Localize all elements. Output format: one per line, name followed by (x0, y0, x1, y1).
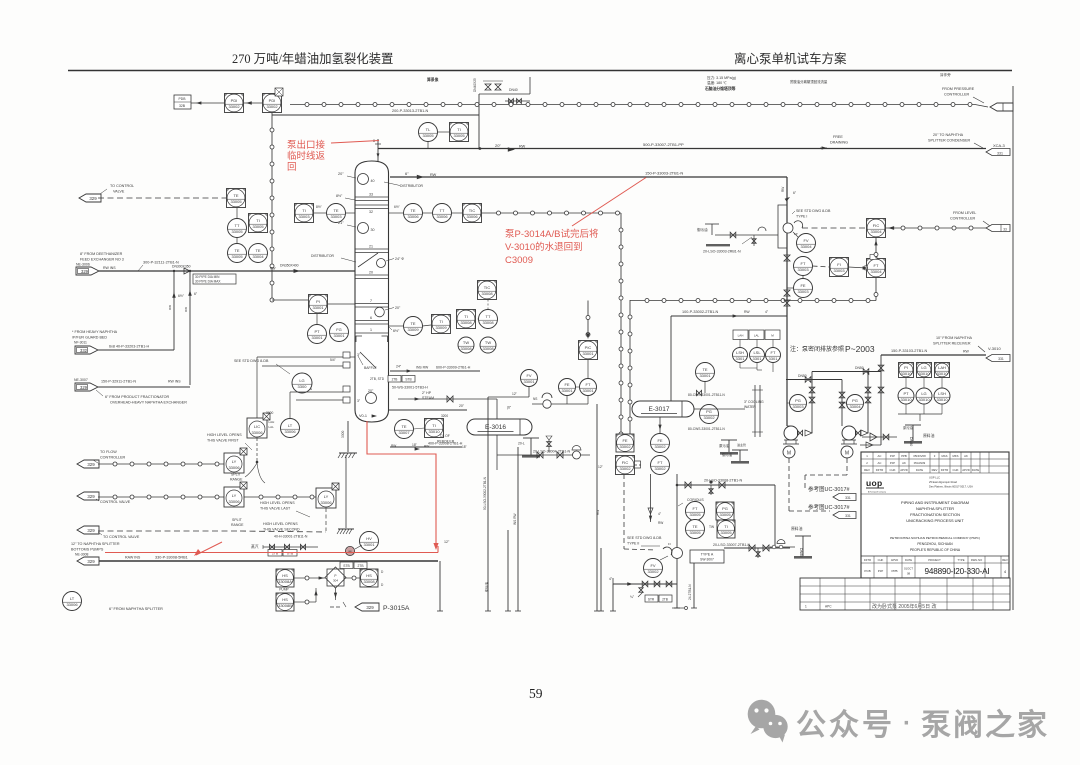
svg-text:LIC: LIC (254, 424, 260, 429)
svg-text:RW: RW (596, 510, 600, 515)
instrument FIC-33004 sq (867, 219, 886, 238)
svg-text:DFTR: DFTR (864, 558, 871, 562)
svg-text:M: M (349, 550, 352, 554)
instrument FT-33003 (794, 257, 813, 276)
instrument LT-33006 (281, 419, 300, 438)
svg-text:8" FROM DEETHANIZER: 8" FROM DEETHANIZER (80, 252, 123, 256)
instrument TE-33003 (327, 204, 346, 223)
svg-text:M: M (845, 451, 849, 457)
junction arrow feed (294, 269, 300, 273)
svg-text:THIS VALVE LAST: THIS VALVE LAST (260, 507, 291, 511)
svg-text:NE-3007: NE-3007 (74, 378, 88, 382)
svg-text:MKS: MKS (952, 454, 958, 458)
svg-text:TT: TT (486, 314, 491, 319)
svg-text:FIC: FIC (873, 223, 880, 228)
svg-text:TW: TW (485, 340, 491, 345)
svg-text:NE-3006: NE-3006 (76, 263, 90, 267)
svg-text:TE: TE (234, 248, 239, 253)
svg-text:* FROM HEAVY NAPHTHA: * FROM HEAVY NAPHTHA (72, 330, 118, 334)
svg-text:御污油: 御污油 (484, 581, 489, 592)
flag control valve2 (77, 492, 99, 500)
pipe drop 787 (786, 177, 788, 426)
svg-text:12": 12" (444, 540, 450, 544)
svg-text:5/4": 5/4" (330, 358, 337, 362)
signal line from pressure controller (290, 104, 975, 106)
svg-text:80-CWS-33001-2TB11-N: 80-CWS-33001-2TB11-N (688, 427, 725, 431)
signal dotted c (244, 496, 316, 498)
svg-text:DISTRIBUTOR: DISTRIBUTOR (311, 254, 334, 258)
svg-text:HS: HS (282, 597, 288, 602)
instrument LY-33006b (224, 487, 244, 507)
svg-text:DWG NO: DWG NO (971, 558, 982, 562)
svg-text:33005: 33005 (231, 229, 243, 234)
column tray 33 (355, 196, 389, 198)
svg-text:PJP: PJP (890, 454, 895, 458)
svg-text:泵阀之家: 泵阀之家 (921, 708, 1049, 742)
svg-text:FE: FE (800, 283, 805, 288)
svg-text:33008A: 33008A (278, 579, 292, 584)
flag 329 bottoms (77, 557, 99, 565)
pipe pumpB suction link (860, 444, 881, 446)
svg-text:33007: 33007 (398, 430, 410, 435)
svg-text:原料油: 原料油 (923, 433, 935, 438)
svg-text:RW: RW (519, 145, 526, 149)
svg-text:SPLITTER RECEIVER: SPLITTER RECEIVER (933, 342, 971, 346)
pipe-dia note box (193, 274, 236, 284)
drain funnel mid (523, 437, 539, 439)
svg-text:33005: 33005 (720, 530, 732, 535)
svg-text:33: 33 (1003, 228, 1007, 232)
svg-text:33003: 33003 (797, 267, 809, 272)
svg-text:24" Φ: 24" Φ (395, 257, 404, 261)
svg-text:32B: 32B (179, 104, 186, 108)
svg-text:PDI: PDI (269, 98, 276, 103)
instrument TT-33005 (228, 219, 247, 238)
svg-text:20": 20" (459, 404, 465, 408)
pipe 20-LSO-33007 (724, 547, 790, 549)
svg-text:FT: FT (693, 506, 698, 511)
svg-text:50-WS-33001-5TB3-H: 50-WS-33001-5TB3-H (392, 386, 428, 390)
logic pump diamond (327, 569, 344, 586)
junction dot 480 (479, 147, 482, 150)
svg-text:PEOPLE'S REPUBLIC OF CHINA: PEOPLE'S REPUBLIC OF CHINA (910, 548, 961, 552)
svg-text:算景像: 算景像 (426, 77, 439, 82)
instrument HS-33008 sq (360, 569, 378, 587)
svg-text:33010: 33010 (936, 397, 948, 402)
svg-text:UNICRACKING PROCESS UNIT: UNICRACKING PROCESS UNIT (906, 518, 964, 523)
instrument PI-33001 sq (309, 295, 328, 314)
svg-text:500-P-33007-2TB1-PP: 500-P-33007-2TB1-PP (643, 142, 684, 147)
svg-text:CONTROLLER: CONTROLLER (950, 217, 976, 221)
pipe DN50 y371 (812, 371, 881, 373)
svg-text:33001: 33001 (312, 305, 324, 310)
svg-text:329: 329 (87, 528, 95, 533)
svg-text:C3009: C3009 (505, 255, 533, 266)
svg-text:TE: TE (410, 208, 415, 213)
svg-text:RW INS: RW INS (168, 380, 181, 384)
svg-text:TI: TI (256, 218, 260, 223)
pipe 400-P-33008 (390, 446, 462, 448)
svg-text:2" HP: 2" HP (422, 391, 432, 395)
signal dotted v x630 (629, 300, 631, 452)
pipe 300-P-32111 feed line (99, 270, 355, 272)
signal dashed to FIC33004 (802, 227, 866, 229)
svg-text:33004: 33004 (870, 269, 882, 274)
instrument TI-33009 sq (432, 315, 451, 334)
svg-text:BOTTOMS PUMPS: BOTTOMS PUMPS (71, 548, 104, 552)
svg-text:STR: STR (648, 598, 655, 602)
svg-text:LY: LY (232, 493, 237, 498)
instrument PG-33005 sq (716, 502, 734, 520)
column skirt (347, 421, 349, 452)
ground standpipe (338, 528, 354, 530)
svg-text:CHK: CHK (890, 468, 896, 472)
svg-text:24": 24" (396, 365, 402, 369)
level squares 2 (917, 363, 932, 378)
svg-text:FP: FP (794, 232, 798, 236)
svg-text:LAL: LAL (269, 425, 275, 429)
svg-text:33002: 33002 (654, 466, 666, 471)
svg-text:8½": 8½" (316, 205, 323, 209)
svg-text:8½": 8½" (336, 194, 343, 198)
pipe drop 597 (596, 404, 598, 611)
svg-text:AK: AK (902, 461, 906, 465)
svg-text:TT: TT (235, 223, 240, 228)
instrument FT-33010 (766, 348, 781, 363)
svg-text:40: 40 (371, 179, 375, 183)
svg-text:TI: TI (302, 208, 306, 213)
instrument TE-33004 (249, 244, 268, 263)
svg-text:LSH: LSH (736, 350, 744, 355)
svg-text:CONTROL VALVE: CONTROL VALVE (100, 500, 131, 504)
flag P-3015A (330, 606, 341, 608)
instrument LSH-33010 (733, 348, 748, 363)
svg-text:REV: REV (932, 468, 938, 472)
svg-text:DATE: DATE (972, 468, 979, 472)
svg-text:20-LSO-33007-2TB1-N: 20-LSO-33007-2TB1-N (713, 543, 751, 547)
column tray 1 weirs (355, 332, 389, 334)
svg-text:50-LSO-33002-2TB1-N: 50-LSO-33002-2TB1-N (483, 476, 487, 510)
instrument LIC-33006 sq (247, 418, 267, 438)
svg-text:PJP: PJP (890, 461, 895, 465)
column manway 40 (358, 174, 369, 185)
svg-text:20: 20 (369, 271, 373, 275)
svg-text:AK: AK (964, 454, 968, 458)
svg-text:33002: 33002 (647, 569, 659, 574)
svg-text:SEE STD DWG 8-DB: SEE STD DWG 8-DB (796, 209, 831, 213)
signal dashed 530 (98, 530, 240, 532)
pipe 150-P-33003-2TB1-N (390, 176, 787, 178)
pipe drop 677 (676, 474, 678, 608)
svg-text:REV: REV (864, 468, 870, 472)
svg-text:PROJECT: PROJECT (928, 558, 941, 562)
svg-text:18": 18" (462, 445, 467, 449)
boxes 2TB STB (268, 550, 282, 557)
svg-text:LT: LT (288, 423, 293, 428)
svg-text:12": 12" (512, 392, 518, 396)
svg-text:PJP: PJP (878, 569, 884, 573)
svg-text:P~2003: P~2003 (845, 344, 875, 354)
svg-text:E-3017: E-3017 (649, 406, 670, 413)
svg-text:RW: RW (781, 187, 785, 192)
svg-text:TE: TE (692, 524, 697, 529)
flag to flow controller (77, 460, 99, 468)
svg-text:参考图UC-3017#: 参考图UC-3017# (808, 485, 851, 493)
svg-text:LT: LT (70, 596, 75, 601)
svg-text:05NOV08: 05NOV08 (913, 454, 926, 458)
svg-text:329: 329 (81, 269, 89, 274)
flag to control valve (79, 194, 101, 202)
signal down to FIC-33002 (620, 213, 622, 450)
wires HS (294, 577, 305, 579)
svg-text:Des Plaines, Illinois 60017-50: Des Plaines, Illinois 60017-5017, USA (929, 485, 973, 489)
svg-text:33009: 33009 (435, 325, 447, 330)
instrument TI-33010 sq (425, 419, 444, 438)
drain end 678 (672, 607, 684, 609)
svg-text:FRACTIONATION SECTION: FRACTIONATION SECTION (910, 512, 960, 517)
svg-text:WATER: WATER (744, 405, 756, 409)
svg-text:20": 20" (395, 306, 401, 310)
svg-text:DN40X25: DN40X25 (473, 78, 477, 92)
svg-text:御污油: 御污油 (722, 452, 733, 457)
svg-text:32: 32 (369, 210, 373, 214)
pipe drop 440 (439, 561, 441, 611)
svg-text:33004: 33004 (870, 229, 882, 234)
svg-text:APC: APC (825, 605, 832, 609)
svg-text:SPLITTER CONDENSER: SPLITTER CONDENSER (928, 139, 971, 143)
svg-text:PG: PG (852, 398, 858, 403)
svg-text:THIS VALVE FIRST: THIS VALVE FIRST (207, 439, 239, 443)
bypass loop (778, 205, 787, 248)
column tray 6 (355, 320, 389, 322)
svg-text:330-P-33008-5RB1: 330-P-33008-5RB1 (155, 556, 188, 560)
svg-text:33010: 33010 (936, 371, 948, 376)
svg-text:33001: 33001 (523, 379, 535, 384)
signal dashed motorB (846, 458, 848, 475)
svg-text:33008: 33008 (482, 320, 494, 325)
pipe E3017 out (659, 417, 661, 434)
svg-text:3301: 3301 (753, 356, 763, 361)
header rule (68, 70, 1012, 72)
control valve main (783, 223, 793, 233)
svg-text:59: 59 (529, 686, 543, 701)
svg-text:TL: TL (426, 127, 431, 132)
riser to overhead (478, 94, 480, 149)
tag box top-left (174, 95, 191, 109)
svg-text:FT: FT (658, 460, 663, 465)
instrument PDI-33002 (225, 94, 244, 113)
red return line (105, 552, 438, 554)
svg-text:TYPE: TYPE (957, 558, 964, 562)
level squares PI LG LAH (899, 363, 914, 378)
instrument PIC-33001 sq (579, 341, 598, 360)
instrument TE-33001 (696, 363, 715, 382)
svg-text:压力: 3.15 MPa(g): 压力: 3.15 MPa(g) (707, 75, 736, 80)
svg-text:33008: 33008 (460, 320, 472, 325)
svg-text:33006: 33006 (228, 499, 240, 504)
label DISTRIBUTOR top (384, 182, 400, 186)
svg-text:改为卧式泵 2005年6月5日 改: 改为卧式泵 2005年6月5日 改 (872, 603, 936, 610)
flag 329 b (75, 383, 98, 391)
svg-text:332: 332 (80, 348, 88, 353)
top valve manifold (479, 93, 530, 95)
svg-text:1: 1 (805, 605, 807, 609)
svg-text:HIGH LEVEL OPENS: HIGH LEVEL OPENS (263, 522, 298, 526)
svg-text:INS RW: INS RW (416, 366, 429, 370)
wire col to LIC (257, 356, 343, 358)
svg-text:33006: 33006 (407, 214, 419, 219)
svg-text:TIC: TIC (469, 208, 476, 213)
pipe drop 881 (880, 355, 882, 445)
svg-text:FT: FT (874, 263, 879, 268)
reducer (184, 268, 190, 274)
check valve right (862, 436, 897, 438)
svg-text:80-CWS-33001-2TB11-N: 80-CWS-33001-2TB11-N (688, 393, 725, 397)
svg-text:贫胺油分离罐顶回流流量: 贫胺油分离罐顶回流流量 (790, 79, 828, 84)
svg-text:V-3010: V-3010 (988, 346, 1001, 351)
svg-text:33002: 33002 (654, 444, 666, 449)
svg-text:331: 331 (998, 357, 1004, 361)
svg-text:2TB: 2TB (392, 378, 398, 382)
svg-text:LAH: LAH (269, 420, 275, 424)
signal LY3 down (325, 508, 327, 531)
svg-text:AC: AC (878, 454, 882, 458)
svg-text:33004: 33004 (800, 244, 812, 249)
svg-text:SEE STD DWG 8-DB: SEE STD DWG 8-DB (234, 359, 269, 363)
instrument TE-33005 sq (227, 189, 246, 208)
drain funnel E3017 (721, 439, 737, 441)
instrument TW-33008b (480, 337, 496, 353)
watermark wechat icon (748, 700, 788, 743)
instrument PG-33002b (700, 405, 719, 424)
svg-text:33010: 33010 (428, 429, 440, 434)
svg-text:APVD: APVD (900, 468, 908, 472)
svg-text:7: 7 (370, 299, 372, 303)
svg-text:TYPE A: TYPE A (701, 553, 714, 557)
svg-text:DATE: DATE (916, 468, 923, 472)
svg-text:08: 08 (907, 572, 911, 576)
svg-text:33005: 33005 (453, 133, 465, 138)
svg-text:THIS VALVE SECOND: THIS VALVE SECOND (263, 528, 300, 532)
svg-text:LAH: LAH (938, 365, 946, 370)
reboiler E-3016 (467, 419, 532, 435)
pipe 100-P-33002 (671, 315, 787, 317)
svg-text:150-P-33103-2TB1-N: 150-P-33103-2TB1-N (891, 349, 928, 353)
svg-text:DN50: DN50 (855, 366, 864, 370)
signal dashed FIC down (623, 474, 625, 549)
svg-text:注：泵密闭排放参照: 注：泵密闭排放参照 (790, 345, 844, 353)
wire TI-TE (314, 212, 326, 214)
connector flag level (986, 225, 1010, 232)
svg-text:FE: FE (564, 382, 569, 387)
svg-text:SEE STD DWG 8-DB: SEE STD DWG 8-DB (627, 536, 662, 540)
svg-text:TE: TE (333, 208, 338, 213)
svg-text:331: 331 (845, 496, 851, 500)
svg-text:PI: PI (904, 365, 908, 370)
title block frame (861, 452, 1009, 578)
svg-text:NF-3011: NF-3011 (74, 341, 87, 345)
instrument FT-33001 (580, 379, 597, 396)
svg-text:MAS: MAS (941, 454, 947, 458)
svg-text:TI: TI (457, 127, 461, 132)
svg-text:临时线返: 临时线返 (287, 150, 326, 162)
svg-text:RW: RW (184, 307, 188, 312)
instrument FT-33004 sq (867, 259, 886, 278)
valves on 787 (784, 290, 790, 296)
svg-text:V-3010的水退回到: V-3010的水退回到 (505, 241, 583, 253)
svg-text:TO CONTROL VALVE: TO CONTROL VALVE (103, 535, 140, 539)
svg-text:33005: 33005 (422, 133, 434, 138)
instrument TI-33005 top sq (450, 123, 469, 142)
svg-text:21: 21 (369, 245, 373, 249)
instrument PG-33003 (790, 395, 807, 412)
svg-text:PIC: PIC (585, 345, 592, 350)
svg-text:REV: REV (1002, 558, 1008, 562)
instrument TE-33009 (404, 317, 423, 336)
svg-text:33003: 33003 (833, 268, 845, 273)
svg-text:CL OF: CL OF (440, 434, 450, 438)
signal dashed motorA (788, 458, 790, 511)
instrument TI-33008 sq (457, 310, 476, 329)
instrument TW-33008a (458, 337, 474, 353)
svg-text:BAFFLE: BAFFLE (364, 366, 378, 370)
svg-text:TW: TW (463, 340, 469, 345)
check valves discharge (797, 430, 802, 435)
svg-text:33008: 33008 (460, 346, 472, 351)
instrument FE-33003 (794, 279, 813, 298)
svg-text:TE: TE (233, 193, 238, 198)
svg-text:APVD: APVD (962, 468, 970, 472)
svg-text:H: H (310, 387, 312, 391)
svg-text:1: 1 (370, 328, 372, 332)
pipe 600-P-33009 (390, 370, 480, 372)
svg-text:33008: 33008 (481, 291, 493, 296)
svg-text:33004: 33004 (849, 404, 861, 409)
steam line (398, 398, 497, 400)
instrument TT-33006 (433, 204, 452, 223)
svg-text:33006: 33006 (251, 430, 263, 435)
svg-text:御污油: 御污油 (697, 227, 708, 232)
svg-text:FREE: FREE (833, 135, 843, 139)
title block logo row (861, 493, 1009, 495)
svg-text:INS RW: INS RW (513, 514, 517, 525)
instrument TIC-33008 sq (478, 281, 497, 300)
svg-text:TI: TI (724, 524, 728, 529)
red arrow diag (196, 542, 222, 555)
pipe 330-P-33008 bottoms (99, 560, 438, 562)
svg-text:33005: 33005 (689, 530, 701, 535)
instrument TE-33006 (404, 204, 423, 223)
pipe 40-P-33203 (98, 349, 174, 351)
svg-text:NE-3008: NE-3008 (75, 553, 88, 557)
svg-text:270 万吨/年蜡油加氢裂化装置: 270 万吨/年蜡油加氢裂化装置 (232, 51, 393, 66)
svg-text:PG: PG (722, 506, 728, 511)
control valve FV-33002 (672, 548, 683, 559)
svg-text:20-L: 20-L (518, 442, 525, 446)
svg-text:泵出口接: 泵出口接 (287, 139, 326, 151)
svg-text:FROM PRESSURE: FROM PRESSURE (942, 87, 975, 91)
svg-text:18": 18" (412, 443, 418, 447)
instrument FV-33004 (797, 234, 816, 253)
column tray 7 (355, 303, 389, 305)
svg-text:33010: 33010 (900, 371, 912, 376)
instrument PDI-33002B (263, 94, 282, 113)
svg-text:进主管: 进主管 (737, 442, 746, 447)
svg-text:TO CONTROL: TO CONTROL (110, 184, 134, 188)
svg-text:FV: FV (650, 563, 655, 568)
svg-text:33003: 33003 (797, 289, 809, 294)
level squares 3 (935, 363, 950, 378)
